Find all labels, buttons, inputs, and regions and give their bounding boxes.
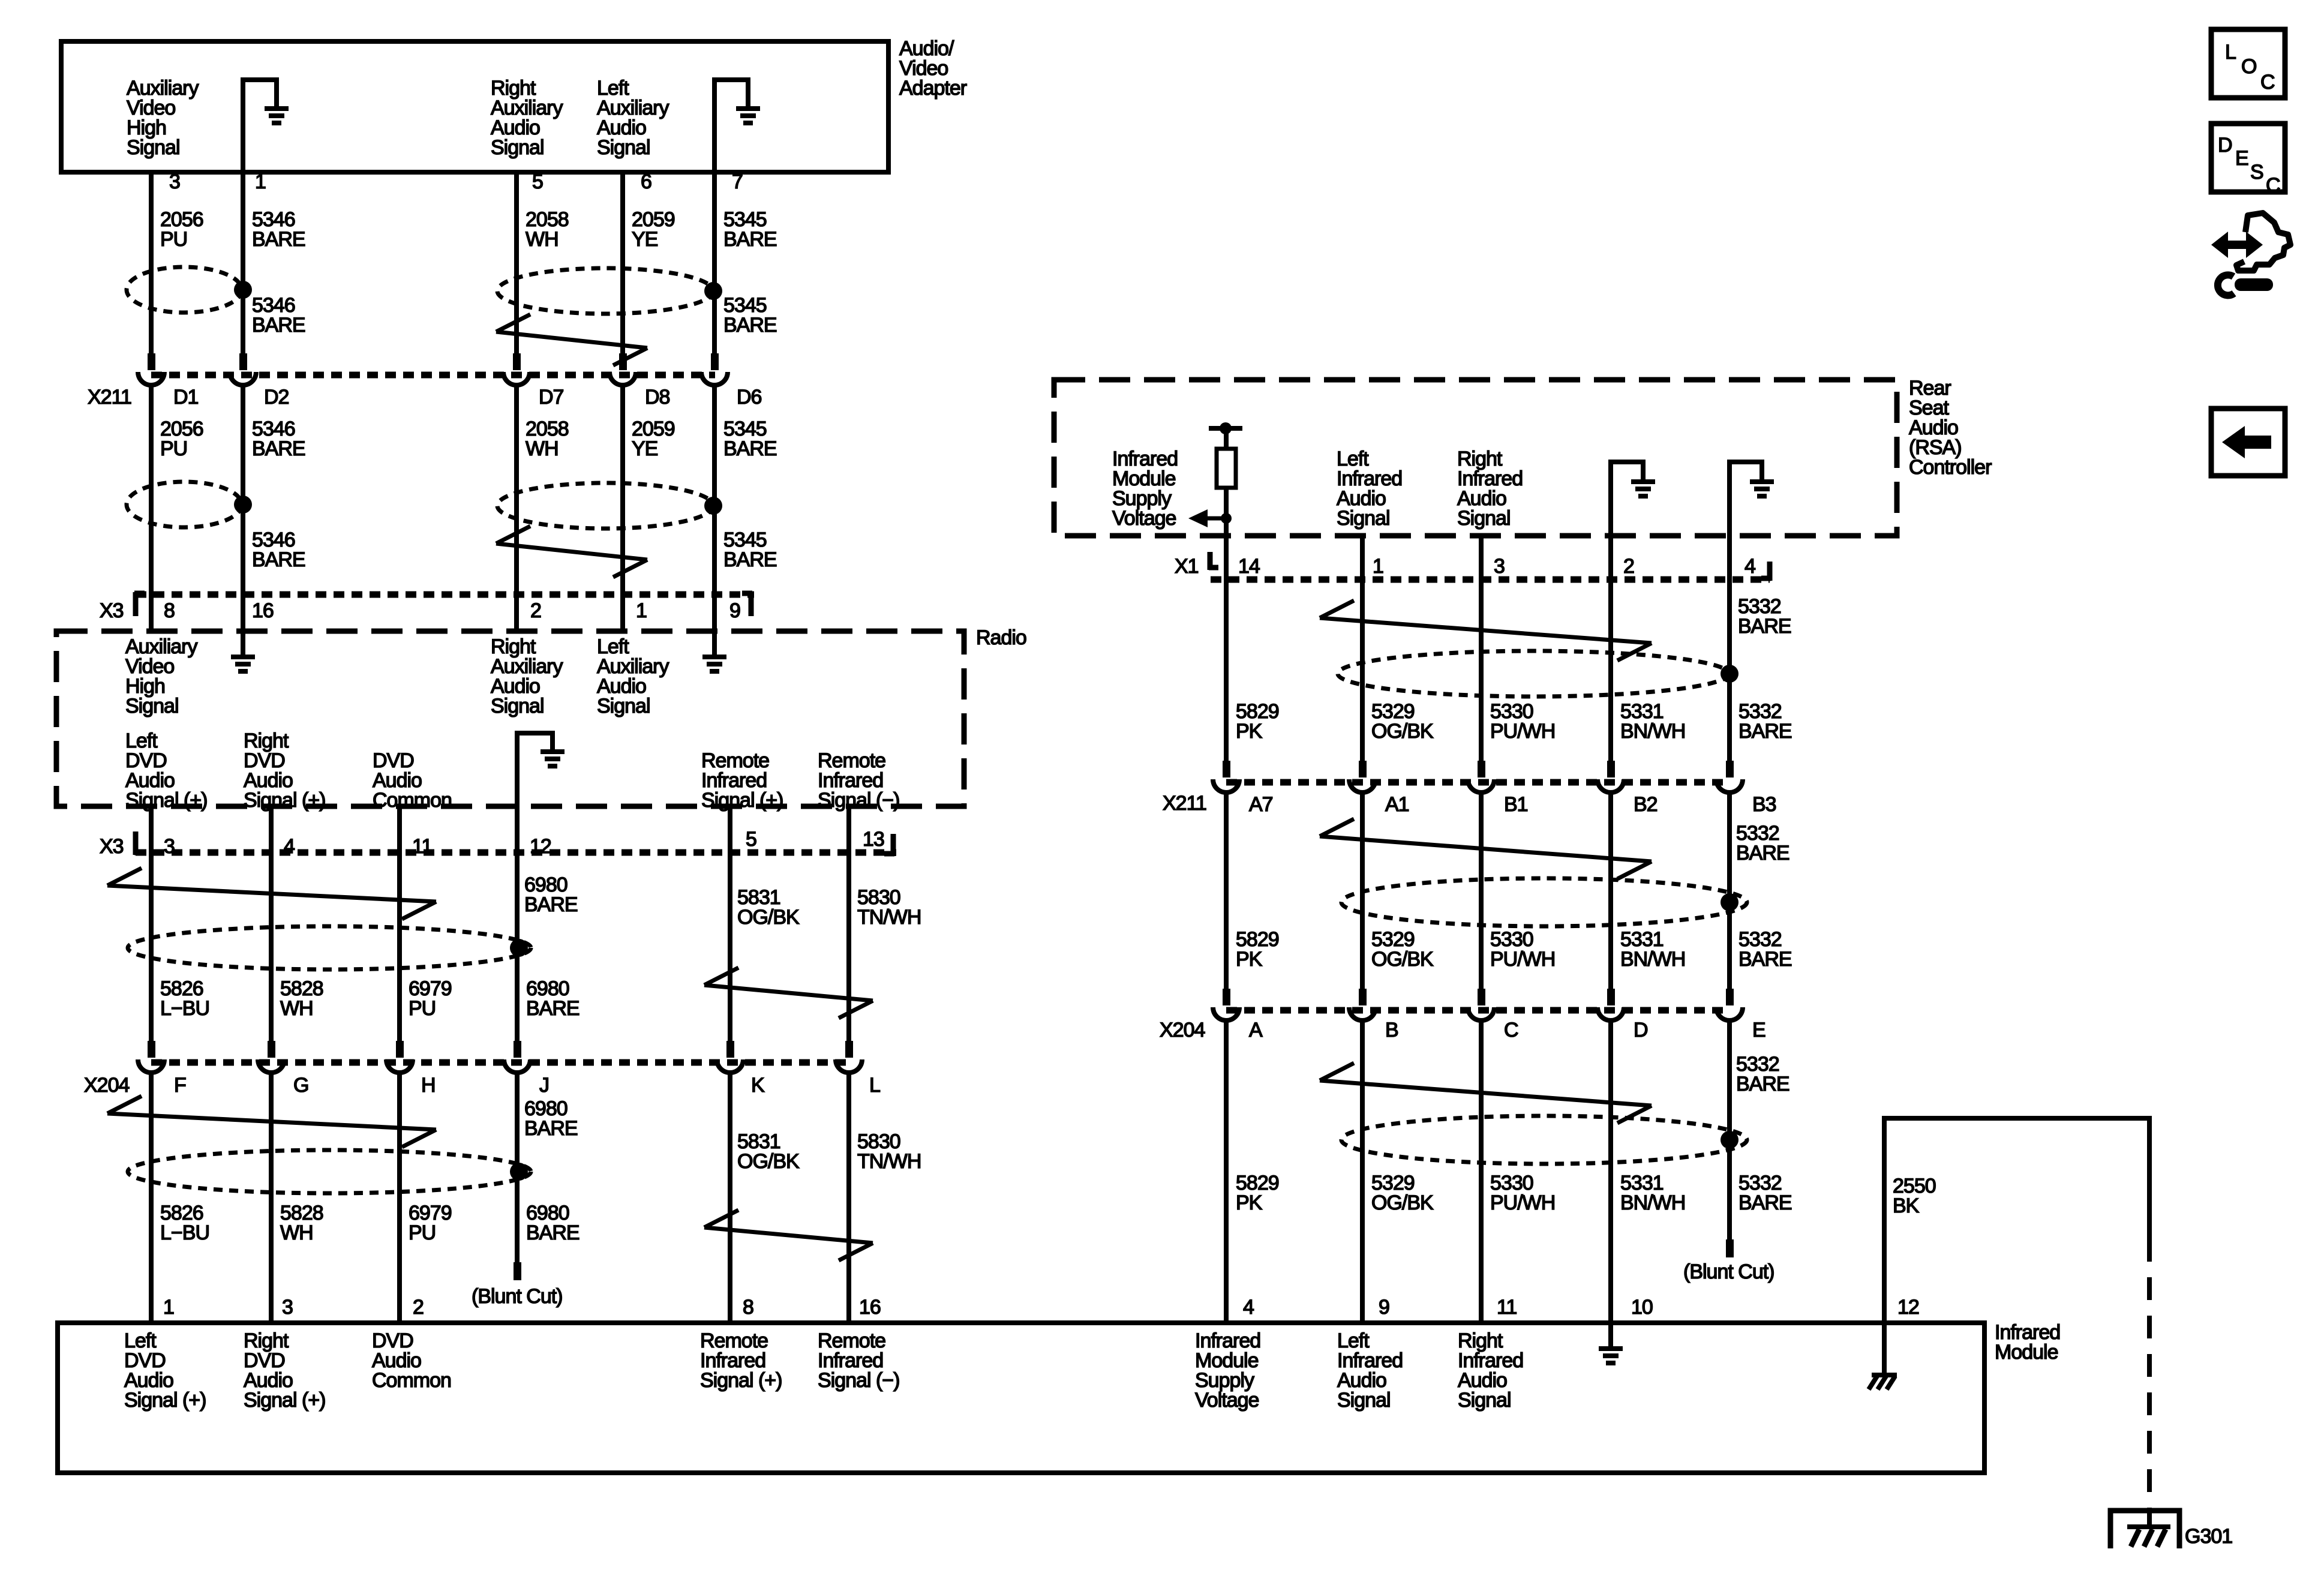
Radio box U2 (dashed) bbox=[56, 631, 964, 806]
wire 2550 BK from module pin 12 up and over bbox=[1884, 1118, 2149, 1323]
connector X204 terminal K bbox=[726, 1041, 734, 1058]
svg-text:1: 1 bbox=[163, 1296, 174, 1319]
svg-text:Radio: Radio bbox=[976, 626, 1026, 649]
connector X1 right bracket bbox=[1767, 562, 1773, 581]
connector X204 terminal B bbox=[1359, 989, 1367, 1005]
svg-text:3: 3 bbox=[169, 170, 180, 193]
svg-text:E: E bbox=[1752, 1019, 1765, 1041]
twisted pair symbol row2 2058/2059 bbox=[496, 544, 647, 560]
ground symbol inside RSA (pin 4) bbox=[1730, 462, 1762, 536]
connector X3 row2 left bracket bbox=[133, 831, 139, 855]
svg-text:F: F bbox=[174, 1074, 186, 1097]
svg-text:InfraredModule: InfraredModule bbox=[1995, 1321, 2060, 1364]
svg-text:2: 2 bbox=[1623, 555, 1634, 578]
svg-text:13: 13 bbox=[863, 828, 884, 851]
wire 5332 BARE segment RSA to X211 B3 bbox=[1727, 536, 1732, 761]
Audio/Video Adapter box U1 bbox=[61, 41, 888, 172]
svg-text:B3: B3 bbox=[1752, 793, 1776, 816]
connector X211 terminal B2 bbox=[1607, 761, 1615, 778]
svg-text:G: G bbox=[293, 1074, 308, 1097]
connector X204 row (right) dashed line bbox=[1226, 1007, 1730, 1014]
wire 2056 PU segment X211 to X3-8 bbox=[149, 385, 154, 631]
svg-text:X3: X3 bbox=[100, 599, 124, 622]
svg-text:5: 5 bbox=[746, 828, 756, 851]
wire 5332 BARE segment X211 to X204 E bbox=[1727, 792, 1732, 989]
icon diagnostic wrench with outline and double arrow bbox=[2224, 241, 2250, 249]
wire 2550 BK dashed segment to G301 bbox=[2147, 1239, 2152, 1512]
wire 5330 PU/WH segment X204 to module pin 11 bbox=[1479, 1020, 1484, 1323]
connector X3 row2 right bracket bbox=[891, 834, 896, 856]
svg-text:10: 10 bbox=[1631, 1296, 1653, 1319]
wire 6980 BARE segment X204 to blunt cut bbox=[515, 1073, 520, 1263]
connector X204 terminal H bbox=[396, 1041, 404, 1058]
svg-text:A: A bbox=[1249, 1019, 1263, 1041]
connector X204 terminal F bbox=[148, 1041, 155, 1058]
svg-text:G301: G301 bbox=[2185, 1525, 2232, 1548]
connector X211 terminal D8 bbox=[619, 353, 627, 370]
svg-text:E: E bbox=[2235, 147, 2248, 170]
twisted pair symbol 5831/5830 bbox=[704, 985, 873, 1001]
connector X204 terminal C bbox=[1478, 989, 1485, 1005]
ground symbol inside radio (pin 16) bbox=[231, 655, 255, 659]
wire 5829 PK segment RSA to X211 A7 bbox=[1224, 536, 1229, 761]
shield ellipse X204 row bbox=[1341, 1116, 1747, 1164]
wire 5345 BARE segment X211 to radio ground bbox=[712, 385, 717, 657]
connector X1 left bracket bbox=[1208, 552, 1213, 570]
svg-text:5826L−BU: 5826L−BU bbox=[160, 1202, 209, 1244]
svg-text:8: 8 bbox=[743, 1296, 753, 1319]
svg-text:(Blunt Cut): (Blunt Cut) bbox=[1683, 1260, 1774, 1283]
shield ellipse row2 around 2056/5346 bbox=[127, 482, 242, 527]
wire 5831 OG/BK segment radio to X204 K bbox=[728, 806, 732, 1041]
svg-text:9: 9 bbox=[1379, 1296, 1389, 1319]
ground symbol inside adapter (pin 1) bbox=[243, 80, 277, 171]
wire 6980 BARE segment radio to X204 J bbox=[515, 806, 520, 1041]
svg-text:X211: X211 bbox=[88, 386, 131, 409]
wire 2059 YE segment X211 to X3-1 bbox=[620, 385, 625, 631]
svg-text:9: 9 bbox=[729, 599, 740, 622]
svg-text:6: 6 bbox=[641, 170, 651, 193]
wire 2058 WH segment X211 to X3-2 bbox=[514, 385, 519, 631]
ground symbol inside adapter (pin 7) bbox=[714, 80, 748, 171]
svg-text:InfraredModuleSupplyVoltage: InfraredModuleSupplyVoltage bbox=[1195, 1329, 1260, 1412]
connector X204 terminal L bbox=[845, 1041, 853, 1058]
svg-text:H: H bbox=[421, 1074, 436, 1097]
ground symbol inside RSA (pin 2) bbox=[1611, 462, 1643, 536]
shield ellipse X211 row bbox=[1341, 878, 1747, 926]
twisted pair symbol 2058/2059 bbox=[496, 332, 647, 348]
Infrared Module box U4 bbox=[58, 1323, 1984, 1473]
wire 5828 WH segment X204 to module pin 3 bbox=[269, 1073, 274, 1323]
ground G301 symbol bbox=[2110, 1511, 2179, 1548]
wire 5331 BN/WH segment RSA to X211 B2 bbox=[1608, 536, 1613, 761]
connector X211 row (right) dashed line bbox=[1226, 779, 1730, 786]
wire 5830 TN/WH segment radio to X204 L bbox=[846, 806, 851, 1041]
svg-text:D2: D2 bbox=[264, 386, 289, 409]
shield ellipse X1 row around 5329/5330/5331/5332 bbox=[1338, 651, 1729, 697]
connector X211 terminal D7 bbox=[513, 353, 521, 370]
svg-text:O: O bbox=[2241, 55, 2256, 78]
svg-text:11: 11 bbox=[1497, 1296, 1517, 1319]
wire 5331 BN/WH segment X204 to module pin 10 bbox=[1608, 1020, 1613, 1349]
twisted pair symbol X204 row 5329/5330/5331 bbox=[1320, 1080, 1652, 1106]
connector X211 row (left) dashed line bbox=[151, 372, 715, 379]
svg-text:7: 7 bbox=[732, 170, 743, 193]
wire 5329 OG/BK segment RSA to X211 A1 bbox=[1360, 536, 1365, 761]
connector X204 terminal E bbox=[1726, 989, 1734, 1005]
shield ellipse around 2056/5346 pair bbox=[127, 267, 242, 313]
wire 5828 WH segment radio to X204 G bbox=[269, 806, 274, 1041]
twisted pair symbol row2 5826/5828/6979 bbox=[107, 1113, 436, 1130]
svg-text:L: L bbox=[2225, 41, 2236, 64]
svg-text:1: 1 bbox=[636, 599, 647, 622]
Rear Seat Audio (RSA) Controller box U3 (dashed) bbox=[1054, 380, 1897, 536]
svg-text:C: C bbox=[2266, 174, 2280, 197]
svg-text:K: K bbox=[751, 1074, 765, 1097]
svg-text:A7: A7 bbox=[1249, 793, 1273, 816]
svg-text:S: S bbox=[2250, 161, 2263, 184]
wire 2059 YE segment adapter to X211 D8 bbox=[620, 172, 625, 353]
connector X3 row 2 dashed line bbox=[136, 849, 896, 856]
shield ellipse row2 around 2058/2059/5345 bbox=[497, 483, 713, 529]
svg-text:X3: X3 bbox=[100, 835, 124, 858]
wire 5331 BN/WH segment X211 to X204 D bbox=[1608, 792, 1613, 989]
wire 5826 L-BU segment X204 to module pin 1 bbox=[149, 1073, 154, 1323]
connector X204 terminal D bbox=[1607, 989, 1615, 1005]
svg-text:D: D bbox=[2218, 134, 2232, 157]
wire 5329 OG/BK segment X204 to module pin 9 bbox=[1360, 1020, 1365, 1323]
shield ellipse row2 around 5826/5828/6979/6980 bbox=[128, 1150, 531, 1193]
wire 5330 PU/WH segment X211 to X204 C bbox=[1479, 792, 1484, 989]
wire 5830 TN/WH segment X204 to module pin 16 bbox=[846, 1073, 851, 1323]
svg-text:B2: B2 bbox=[1634, 793, 1658, 816]
svg-text:3: 3 bbox=[282, 1296, 293, 1319]
svg-text:3: 3 bbox=[164, 835, 175, 858]
connector X204 row (left) dashed line bbox=[151, 1059, 849, 1066]
shield ellipse around 2058/2059/5345 triple bbox=[497, 268, 713, 314]
svg-text:D6: D6 bbox=[737, 386, 762, 409]
svg-text:(Blunt Cut): (Blunt Cut) bbox=[472, 1285, 563, 1308]
twisted pair symbol 5826/5828/6979 bbox=[107, 885, 436, 902]
ground symbol inside radio (pin 9) bbox=[702, 655, 726, 659]
twisted pair symbol X1 row 5329/5330/5331 bbox=[1320, 618, 1652, 643]
wire 5329 OG/BK segment X211 to X204 B bbox=[1360, 792, 1365, 989]
connector X204 terminal G bbox=[268, 1041, 275, 1058]
svg-text:2: 2 bbox=[530, 599, 541, 622]
connector X211 terminal D1 bbox=[148, 353, 155, 370]
svg-text:X204: X204 bbox=[84, 1074, 129, 1097]
svg-text:11: 11 bbox=[412, 835, 432, 858]
svg-text:3: 3 bbox=[1494, 555, 1505, 578]
svg-text:B: B bbox=[1385, 1019, 1398, 1041]
wire 2056 PU segment adapter to X211 D1 bbox=[149, 172, 154, 353]
wire 5345 BARE segment adapter to X211 D6 bbox=[712, 172, 717, 353]
svg-text:X1: X1 bbox=[1175, 555, 1199, 578]
shield ellipse around 5826/5828/6979/6980 bbox=[128, 926, 531, 969]
supply voltage arrow (RSA) bbox=[1188, 509, 1208, 527]
wire 6979 PU segment X204 to module pin 2 bbox=[397, 1073, 402, 1323]
svg-text:12: 12 bbox=[530, 835, 551, 858]
connector X3 row1 right bracket bbox=[749, 592, 754, 616]
chassis ground inside module (pin 12) bbox=[1882, 1323, 1887, 1375]
svg-text:4: 4 bbox=[1744, 555, 1755, 578]
svg-text:X211: X211 bbox=[1163, 792, 1206, 815]
blunt cut terminal 5332 BARE bbox=[1726, 1239, 1734, 1257]
connector X211 terminal D6 bbox=[711, 353, 719, 370]
svg-text:1: 1 bbox=[255, 170, 266, 193]
svg-text:2: 2 bbox=[413, 1296, 424, 1319]
svg-text:1: 1 bbox=[1373, 555, 1383, 578]
connector X3 row1 left bracket bbox=[133, 592, 139, 616]
wire 6979 PU segment radio to X204 H bbox=[397, 806, 402, 1041]
resistor R1 inside RSA controller bbox=[1209, 426, 1242, 431]
svg-text:4: 4 bbox=[1243, 1296, 1254, 1319]
wire 5330 PU/WH segment RSA to X211 B1 bbox=[1479, 536, 1484, 761]
svg-text:D1: D1 bbox=[173, 386, 199, 409]
svg-text:A1: A1 bbox=[1385, 793, 1409, 816]
wire 2058 WH segment adapter to X211 D7 bbox=[514, 172, 519, 353]
svg-text:12: 12 bbox=[1897, 1296, 1919, 1319]
svg-text:5: 5 bbox=[532, 170, 543, 193]
wire 5346 BARE segment X211 to radio ground bbox=[241, 385, 245, 657]
connector X204 terminal A bbox=[1223, 989, 1230, 1005]
svg-text:4: 4 bbox=[284, 835, 295, 858]
wire 5332 BARE segment X204 to blunt cut bbox=[1727, 1020, 1732, 1241]
twisted pair symbol X211 row 5329/5330/5331 bbox=[1320, 836, 1652, 861]
svg-text:D7: D7 bbox=[539, 386, 564, 409]
blunt cut terminal 6980 BARE bbox=[514, 1262, 521, 1280]
ground symbol inside radio (pin 12) bbox=[517, 733, 553, 806]
svg-text:16: 16 bbox=[252, 599, 274, 622]
connector X1 dashed line bbox=[1211, 577, 1770, 583]
svg-text:InfraredModuleSupplyVoltage: InfraredModuleSupplyVoltage bbox=[1112, 448, 1178, 530]
svg-text:L: L bbox=[869, 1074, 880, 1097]
wire 5829 PK segment X211 to X204 A bbox=[1224, 792, 1229, 989]
connector X204 terminal J bbox=[514, 1041, 521, 1058]
svg-text:8: 8 bbox=[164, 599, 175, 622]
svg-text:J: J bbox=[539, 1074, 549, 1097]
svg-text:D: D bbox=[1634, 1019, 1648, 1041]
svg-text:14: 14 bbox=[1238, 555, 1260, 578]
wire 5831 OG/BK segment X204 to module pin 8 bbox=[728, 1073, 732, 1323]
connector X211 terminal B3 bbox=[1726, 761, 1734, 778]
ground symbol inside module (pin 10) bbox=[1599, 1346, 1623, 1351]
connector X211 terminal B1 bbox=[1478, 761, 1485, 778]
icon LOC box bbox=[2211, 29, 2285, 98]
svg-text:C: C bbox=[1504, 1019, 1518, 1041]
connector X211 terminal A7 bbox=[1223, 761, 1230, 778]
svg-text:X204: X204 bbox=[1160, 1019, 1205, 1041]
svg-text:D8: D8 bbox=[645, 386, 670, 409]
icon DESC box bbox=[2211, 124, 2285, 192]
svg-text:C: C bbox=[2260, 71, 2275, 94]
wire 5346 BARE segment adapter to X211 D2 bbox=[241, 172, 245, 353]
connector X3 row 1 dashed line bbox=[136, 592, 754, 598]
svg-text:5826L−BU: 5826L−BU bbox=[160, 977, 209, 1020]
icon back-arrow box bbox=[2211, 409, 2285, 476]
wire 5826 L-BU segment radio to X204 F bbox=[149, 806, 154, 1041]
connector X211 terminal A1 bbox=[1359, 761, 1367, 778]
wire 5829 PK segment X204 to module pin 4 bbox=[1224, 1020, 1229, 1323]
svg-text:B1: B1 bbox=[1504, 793, 1528, 816]
twisted pair symbol row2 5831/5830 bbox=[704, 1227, 873, 1243]
connector X211 terminal D2 bbox=[239, 353, 247, 370]
svg-text:16: 16 bbox=[859, 1296, 881, 1319]
